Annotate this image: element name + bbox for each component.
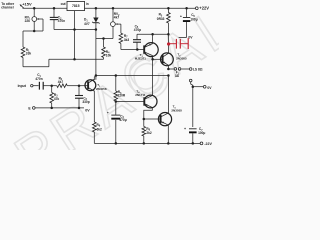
svg-text:MJE371: MJE371 — [135, 57, 147, 61]
svg-text:Input: Input — [18, 84, 27, 88]
svg-text:+15V: +15V — [22, 2, 32, 7]
svg-text:2N3055: 2N3055 — [176, 57, 187, 61]
svg-text:33k: 33k — [26, 51, 32, 55]
svg-text:100μ: 100μ — [190, 17, 197, 21]
svg-text:in: in — [86, 2, 89, 6]
svg-text:330p: 330p — [82, 100, 89, 104]
svg-text:-22V: -22V — [204, 142, 212, 146]
svg-text:22k: 22k — [25, 19, 31, 23]
svg-text:4k7: 4k7 — [58, 80, 64, 84]
svg-text:0V: 0V — [207, 86, 212, 90]
svg-text:4V7: 4V7 — [84, 22, 90, 26]
svg-text:470p: 470p — [134, 28, 141, 32]
svg-text:7815: 7815 — [72, 4, 80, 8]
svg-text:0V: 0V — [188, 36, 193, 40]
svg-text:2N4058: 2N4058 — [96, 87, 107, 91]
svg-text:channel: channel — [1, 6, 14, 10]
svg-text:0V: 0V — [85, 109, 90, 113]
svg-text:+: + — [180, 15, 182, 19]
svg-text:6k2: 6k2 — [97, 128, 103, 132]
svg-text:470μ: 470μ — [119, 118, 126, 122]
svg-text:0R33: 0R33 — [157, 17, 165, 21]
svg-text:2N1711: 2N1711 — [135, 93, 146, 97]
svg-text:470n: 470n — [35, 77, 42, 81]
svg-text:10k: 10k — [106, 54, 112, 58]
svg-text:3A: 3A — [175, 74, 180, 78]
svg-text:+22V: +22V — [199, 6, 209, 11]
svg-text:+: + — [184, 127, 186, 131]
svg-text:2N3055: 2N3055 — [171, 108, 182, 112]
svg-text:4k7: 4k7 — [114, 16, 120, 20]
svg-text:LS 8Ω: LS 8Ω — [193, 68, 203, 72]
svg-text:470n: 470n — [58, 19, 65, 23]
svg-text:+: + — [107, 111, 109, 115]
svg-text:2k2: 2k2 — [146, 131, 152, 135]
svg-text:100μ: 100μ — [198, 131, 205, 135]
svg-text:3k3: 3k3 — [124, 38, 130, 42]
svg-text:220R: 220R — [118, 93, 126, 97]
svg-text:47k: 47k — [54, 97, 60, 101]
